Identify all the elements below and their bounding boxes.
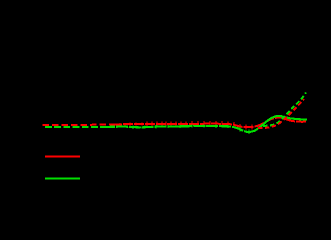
green error bars — [133, 125, 249, 135]
red data curve (dashed, with dip near x=242 and small bump near x=277) — [43, 118, 307, 128]
legend red sample — [45, 155, 80, 157]
green fit curve (steep dashed extrapolation rising to upper right) — [263, 93, 306, 126]
legend green sample — [45, 177, 80, 179]
red fit curve (steep dashed extrapolation rising to upper right) — [258, 99, 304, 128]
red error bars — [120, 121, 252, 129]
green data curve (dashed at left, dip near x=248, bump peak near x=277) — [45, 116, 307, 132]
